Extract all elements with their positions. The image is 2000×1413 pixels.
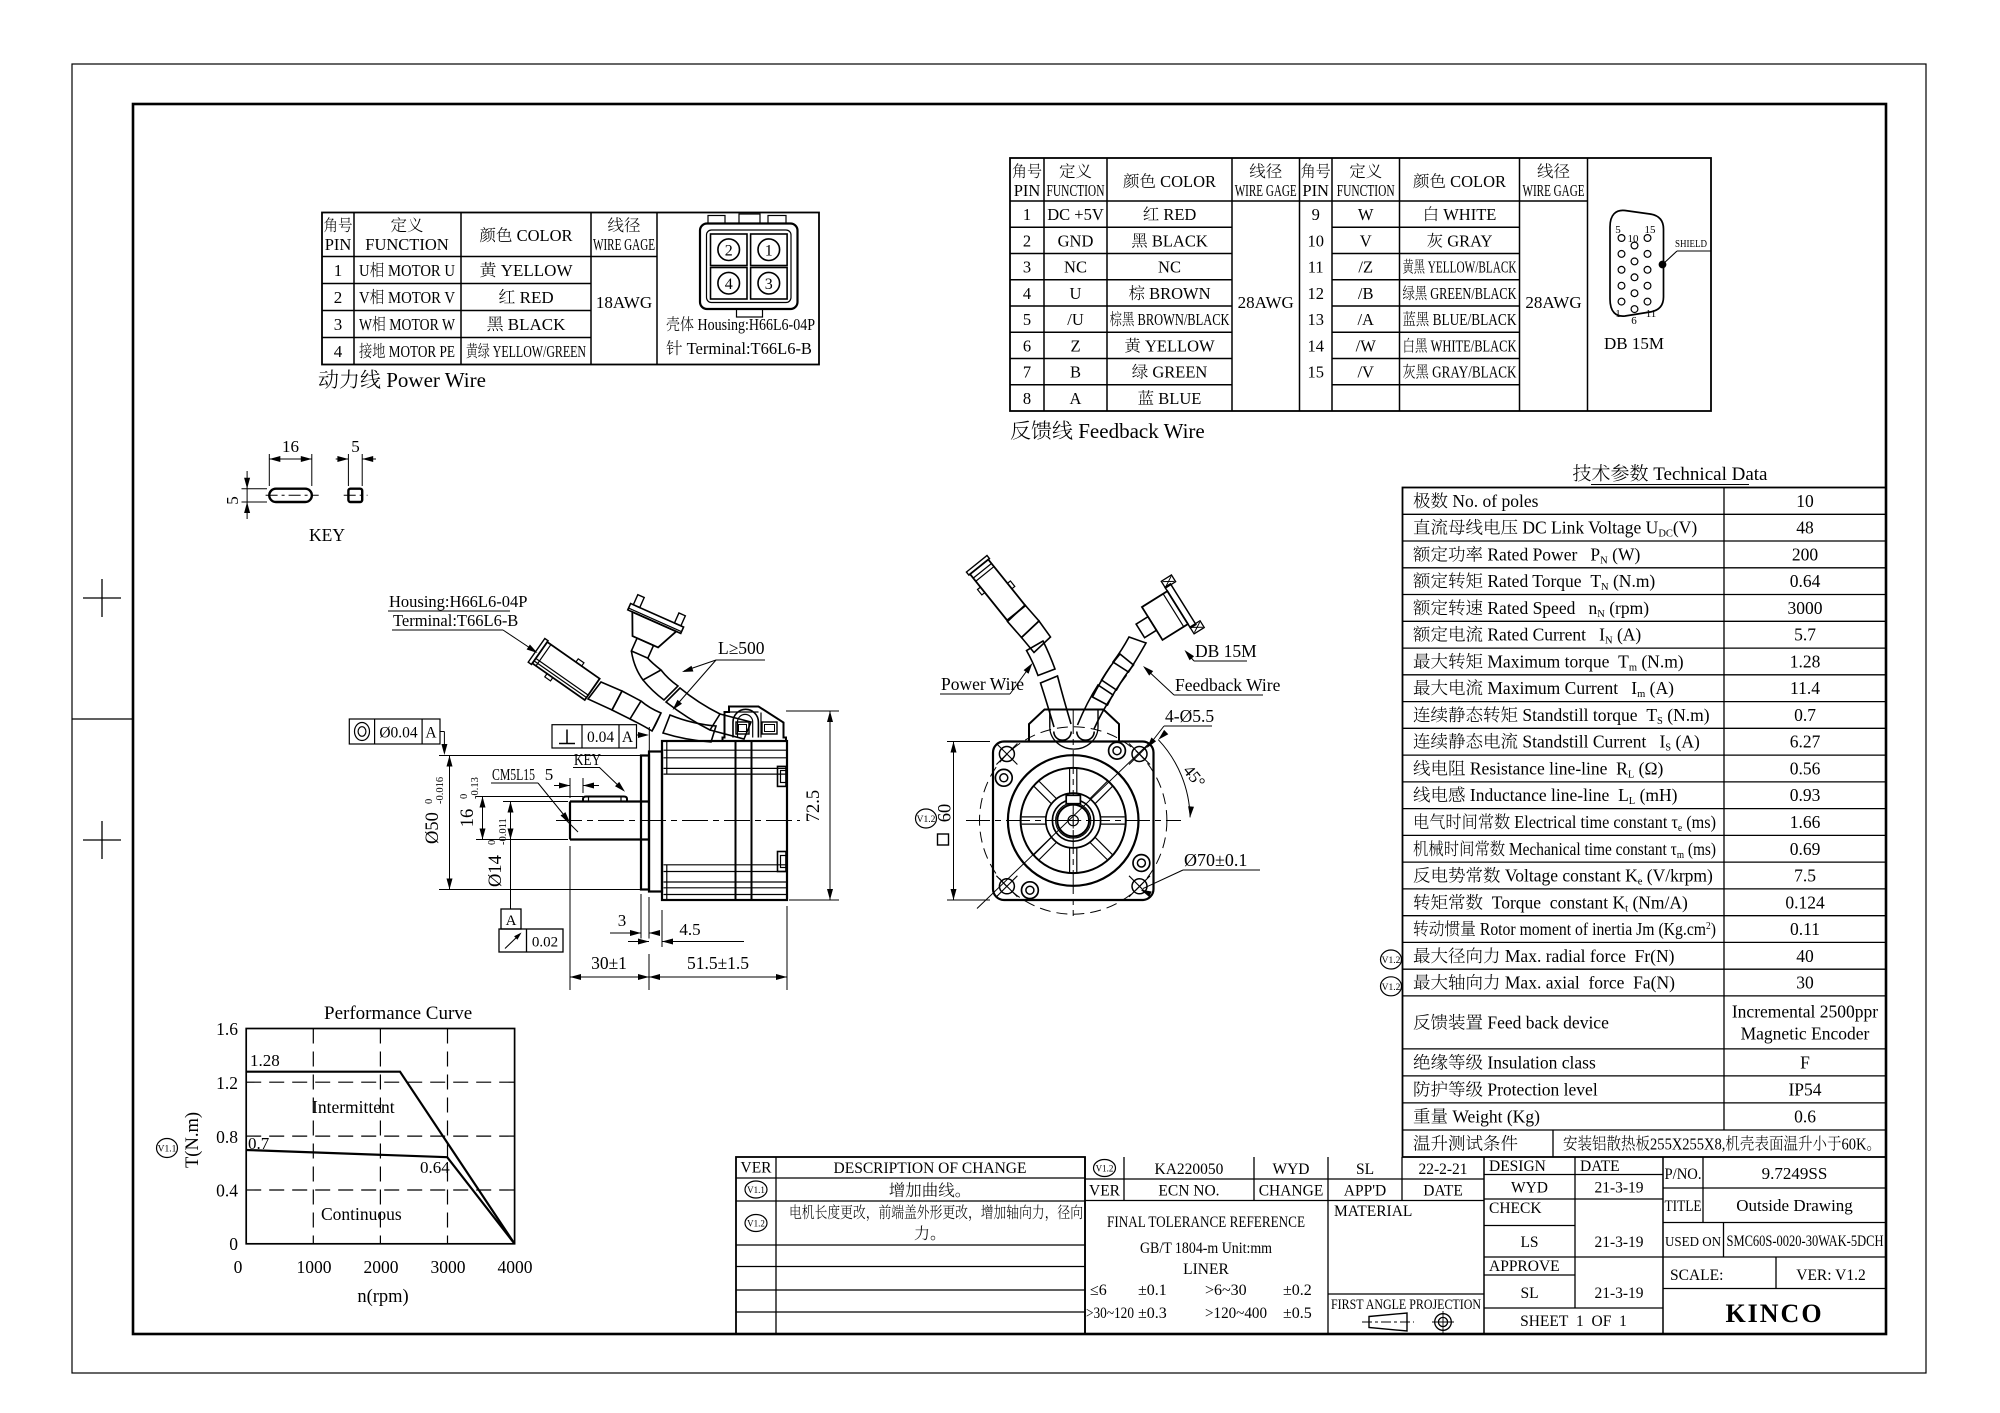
svg-text:40: 40 (1796, 946, 1814, 966)
svg-text:红 RED: 红 RED (498, 288, 553, 307)
feedback cable lead side view (631, 651, 751, 739)
technical data rows (1413, 491, 1881, 1154)
svg-text:4000: 4000 (498, 1257, 533, 1277)
svg-text:0.02: 0.02 (532, 935, 558, 951)
svg-text:W: W (1358, 205, 1374, 224)
svg-text:15: 15 (1645, 224, 1657, 236)
pilot boss (641, 756, 649, 890)
svg-text:LS: LS (1520, 1234, 1538, 1251)
svg-text:11: 11 (1308, 258, 1324, 277)
dimension 51.5 body length (649, 906, 787, 990)
svg-text:L≥500: L≥500 (718, 638, 765, 658)
svg-text:Terminal:T66L6-B: Terminal:T66L6-B (393, 611, 518, 630)
svg-text:5: 5 (351, 437, 360, 456)
svg-text:12: 12 (1307, 284, 1324, 303)
svg-text:反馈装置 Feed back device: 反馈装置 Feed back device (1413, 1012, 1609, 1032)
svg-text:6.27: 6.27 (1790, 732, 1821, 752)
power cable connector side view (527, 636, 602, 703)
svg-text:0.8: 0.8 (216, 1127, 238, 1147)
svg-text:动力线 Power Wire: 动力线 Power Wire (318, 368, 486, 392)
shield pigtail and label (1659, 238, 1711, 268)
dimension 3 boss standoff (610, 894, 660, 939)
svg-text:1.66: 1.66 (1790, 812, 1821, 832)
svg-text:最大径向力 Max. radial force Fr(N): 最大径向力 Max. radial force Fr(N) (1413, 946, 1675, 966)
mounting holes 4xdia5.5 (996, 744, 1150, 897)
svg-text:Continuous: Continuous (321, 1204, 402, 1224)
svg-text:力。: 力。 (914, 1225, 946, 1243)
svg-text:转矩常数 Torque constant Kt (Nm/: 转矩常数 Torque constant Kt (Nm/A) (1413, 892, 1688, 914)
intermittent torque curve (246, 1072, 514, 1244)
chart gridlines (246, 1029, 514, 1244)
svg-text:SCALE:: SCALE: (1670, 1267, 1723, 1284)
svg-text:±0.5: ±0.5 (1283, 1305, 1312, 1322)
svg-text:IP54: IP54 (1788, 1079, 1821, 1099)
svg-text:0: 0 (424, 799, 435, 804)
45 degree reference line (977, 742, 1151, 909)
svg-text:15: 15 (1307, 363, 1324, 382)
svg-text:连续静态转矩 Standstill torque TS (: 连续静态转矩 Standstill torque TS (N.m) (1413, 705, 1710, 727)
svg-text:V1.2: V1.2 (1096, 1164, 1114, 1174)
power cable front view (1027, 641, 1072, 727)
feedback wire caption (1010, 419, 1205, 443)
svg-text:黄绿 YELLOW/GREEN: 黄绿 YELLOW/GREEN (466, 342, 586, 361)
DB15 male connector face symbol (1604, 210, 1664, 353)
curve value labels (248, 1051, 450, 1224)
svg-text:Ø14: Ø14 (486, 855, 506, 887)
svg-text:U: U (1070, 284, 1082, 303)
4-pin power connector symbol (700, 214, 798, 317)
svg-text:4: 4 (334, 342, 343, 361)
svg-text:KA220050: KA220050 (1155, 1161, 1224, 1178)
drawing sheet inner border (133, 104, 1886, 1334)
front flange square (993, 742, 1154, 901)
svg-text:13: 13 (1307, 310, 1324, 329)
svg-text:10: 10 (1796, 491, 1814, 511)
svg-text:28AWG: 28AWG (1238, 293, 1294, 312)
svg-text:≤6: ≤6 (1090, 1282, 1107, 1299)
svg-text:NC: NC (1158, 258, 1181, 277)
V1.2 bubble radial force (1381, 950, 1402, 969)
svg-text:CHECK: CHECK (1489, 1200, 1542, 1217)
svg-text:V1.2: V1.2 (1382, 983, 1401, 993)
svg-text:1000: 1000 (297, 1257, 332, 1277)
feedback plug front view (1124, 575, 1204, 657)
front bearing housing circles (1008, 755, 1139, 886)
svg-text:0.64: 0.64 (1790, 571, 1821, 591)
svg-text:3: 3 (765, 276, 773, 293)
svg-text:A: A (425, 725, 437, 742)
power plug front view (965, 554, 1029, 623)
svg-text:1.6: 1.6 (216, 1019, 238, 1039)
shaft centre line (556, 820, 800, 822)
svg-text:>120~400: >120~400 (1205, 1305, 1267, 1322)
svg-text:DESIGN: DESIGN (1489, 1158, 1546, 1175)
svg-text:0: 0 (459, 794, 470, 799)
technical data table title (1573, 464, 1769, 485)
svg-text:黑 BLACK: 黑 BLACK (1131, 231, 1208, 250)
svg-text:白 WHITE: 白 WHITE (1423, 205, 1497, 224)
svg-text:WIRE GAGE: WIRE GAGE (1523, 181, 1585, 200)
svg-text:0.6: 0.6 (1794, 1106, 1816, 1126)
svg-text:18AWG: 18AWG (596, 293, 652, 312)
dimension 5 key position (545, 765, 599, 798)
svg-text:WIRE GAGE: WIRE GAGE (1235, 181, 1297, 200)
svg-text:7.5: 7.5 (1794, 866, 1816, 886)
svg-text:GB/T 1804-m Unit:mm: GB/T 1804-m Unit:mm (1140, 1240, 1272, 1257)
svg-text:A: A (1070, 389, 1082, 408)
svg-text:线径: 线径 (1249, 162, 1283, 181)
svg-text:转动惯量 Rotor moment of inertia J: 转动惯量 Rotor moment of inertia Jm (Kg.cm2) (1413, 919, 1716, 939)
svg-text:温升测试条件: 温升测试条件 (1413, 1134, 1518, 1154)
svg-text:0: 0 (229, 1234, 238, 1254)
svg-text:机械时间常数 Mechanical time constan: 机械时间常数 Mechanical time constant τm (ms) (1413, 839, 1716, 861)
motor body side profile (662, 741, 787, 900)
svg-text:0.93: 0.93 (1790, 785, 1821, 805)
svg-text:A: A (506, 913, 517, 929)
svg-text:PIN: PIN (325, 235, 352, 254)
material box (1334, 1157, 1484, 1334)
terminal housing on motor top (723, 707, 787, 742)
svg-text:角号: 角号 (324, 216, 353, 235)
svg-text:WIRE GAGE: WIRE GAGE (593, 235, 655, 254)
svg-text:5.7: 5.7 (1794, 625, 1816, 645)
svg-text:Ø0.04: Ø0.04 (379, 725, 418, 742)
svg-text:P/NO.: P/NO. (1665, 1166, 1702, 1183)
label dia70 (1141, 850, 1261, 897)
svg-text:DESCRIPTION OF CHANGE: DESCRIPTION OF CHANGE (834, 1160, 1027, 1177)
svg-text:Ø50: Ø50 (423, 812, 443, 844)
svg-text:接地 MOTOR PE: 接地 MOTOR PE (359, 342, 455, 361)
mounting flange side profile (649, 752, 662, 892)
svg-text:棕 BROWN: 棕 BROWN (1128, 284, 1210, 303)
svg-text:22-2-21: 22-2-21 (1418, 1161, 1467, 1178)
svg-text:0.64: 0.64 (420, 1158, 450, 1177)
svg-text:3: 3 (334, 315, 343, 334)
svg-text:-0.016: -0.016 (435, 777, 446, 804)
svg-text:线电感 Inductance line-line LL (: 线电感 Inductance line-line LL (mH) (1413, 785, 1678, 807)
svg-text:V1.2: V1.2 (1382, 956, 1401, 966)
svg-text:技术参数 Technical Data: 技术参数 Technical Data (1573, 464, 1769, 485)
dimension 5 key slot width (223, 471, 267, 519)
performance chart axes box (246, 1029, 514, 1244)
registration cross lower (83, 821, 121, 859)
motor side view shaft (570, 802, 649, 840)
svg-text:Outside Drawing: Outside Drawing (1736, 1196, 1853, 1215)
svg-text:ECN NO.: ECN NO. (1158, 1183, 1219, 1200)
feedback cable front view (1078, 654, 1134, 729)
svg-text:>30~120: >30~120 (1086, 1305, 1134, 1322)
svg-text:黄 YELLOW: 黄 YELLOW (479, 261, 573, 280)
svg-text:6: 6 (1631, 315, 1637, 327)
svg-text:51.5±1.5: 51.5±1.5 (687, 953, 749, 973)
svg-text:3: 3 (1023, 258, 1031, 277)
svg-text:28AWG: 28AWG (1525, 293, 1581, 312)
svg-text:10: 10 (1307, 231, 1324, 250)
svg-text:3: 3 (618, 911, 627, 930)
svg-text:VER: VER (1089, 1183, 1121, 1200)
svg-text:9.7249SS: 9.7249SS (1762, 1164, 1828, 1183)
svg-text:GND: GND (1058, 231, 1094, 250)
svg-text:KEY: KEY (574, 750, 601, 769)
svg-text:21-3-19: 21-3-19 (1594, 1180, 1643, 1197)
V1.1 revision bubble chart (157, 1139, 178, 1158)
svg-text:FIRST ANGLE PROJECTION: FIRST ANGLE PROJECTION (1331, 1297, 1481, 1313)
svg-text:Incremental 2500ppr: Incremental 2500ppr (1732, 1001, 1878, 1021)
svg-text:30: 30 (1796, 973, 1814, 993)
svg-text:A: A (622, 729, 634, 746)
svg-text:LINER: LINER (1183, 1261, 1229, 1278)
svg-text:/V: /V (1357, 363, 1374, 382)
front view centre lines (966, 710, 1181, 916)
svg-text:0: 0 (234, 1257, 243, 1277)
chart axis titles (183, 1112, 409, 1307)
label housing terminal for power connector (388, 592, 538, 653)
svg-text:F: F (1800, 1052, 1810, 1072)
continuous torque curve (246, 1150, 514, 1244)
svg-text:60: 60 (936, 804, 956, 823)
power wire pin table (322, 213, 819, 365)
svg-text:线电阻 Resistance line-line RL (: 线电阻 Resistance line-line RL (Ω) (1413, 759, 1663, 781)
svg-text:颜色 COLOR: 颜色 COLOR (479, 226, 572, 245)
svg-text:额定转矩 Rated Torque TN (N.m): 额定转矩 Rated Torque TN (N.m) (1413, 571, 1655, 593)
label L>=500 cable length (673, 638, 766, 710)
svg-text:CHANGE: CHANGE (1259, 1183, 1324, 1200)
svg-text:-0.13: -0.13 (470, 777, 481, 799)
svg-text:Performance Curve: Performance Curve (324, 1003, 472, 1024)
svg-text:VER: V1.2: VER: V1.2 (1796, 1267, 1865, 1284)
svg-text:APPROVE: APPROVE (1489, 1258, 1560, 1275)
left margin centre divider (72, 718, 133, 720)
svg-text:壳体 Housing:H66L6-04P: 壳体 Housing:H66L6-04P (666, 315, 815, 334)
rear cover clips (778, 766, 787, 871)
svg-text:蓝黑 BLUE/BLACK: 蓝黑 BLUE/BLACK (1403, 310, 1517, 329)
svg-text:W相 MOTOR W: W相 MOTOR W (359, 315, 456, 334)
chart y axis labels (216, 1019, 238, 1254)
svg-text:Z: Z (1070, 336, 1080, 355)
svg-text:极数 No. of poles: 极数 No. of poles (1413, 491, 1539, 511)
svg-text:DC +5V: DC +5V (1047, 205, 1104, 224)
svg-text:电气时间常数 Electrical time constan: 电气时间常数 Electrical time constant τe (ms) (1413, 812, 1716, 834)
svg-text:定义: 定义 (1059, 162, 1092, 181)
svg-text:/W: /W (1356, 336, 1377, 355)
svg-text:5: 5 (545, 765, 554, 784)
dimension dia14 shaft (486, 802, 568, 887)
svg-text:WYD: WYD (1511, 1180, 1548, 1197)
svg-text:V相 MOTOR V: V相 MOTOR V (359, 288, 456, 307)
svg-text:2: 2 (725, 243, 733, 260)
svg-text:±0.1: ±0.1 (1138, 1282, 1167, 1299)
svg-text:2000: 2000 (364, 1257, 399, 1277)
svg-text:T(N.m): T(N.m) (183, 1112, 203, 1168)
svg-text:5: 5 (1023, 310, 1031, 329)
dimension square 60 (936, 742, 991, 901)
svg-text:2: 2 (1023, 231, 1031, 250)
svg-text:黄 YELLOW: 黄 YELLOW (1124, 336, 1215, 355)
svg-text:PIN: PIN (1014, 181, 1041, 200)
svg-text:SHEET 1 OF 1: SHEET 1 OF 1 (1520, 1313, 1627, 1330)
svg-text:3000: 3000 (1788, 598, 1823, 618)
svg-text:绿黑 GREEN/BLACK: 绿黑 GREEN/BLACK (1403, 284, 1517, 303)
svg-text:B: B (1070, 363, 1081, 382)
svg-text:9: 9 (1312, 205, 1320, 224)
svg-text:SL: SL (1356, 1161, 1374, 1178)
svg-text:黑 BLACK: 黑 BLACK (487, 315, 567, 334)
svg-text:红 RED: 红 RED (1143, 205, 1197, 224)
svg-text:APP'D: APP'D (1344, 1183, 1386, 1200)
registration cross upper (83, 579, 121, 617)
shaft key side profile (583, 797, 627, 802)
label feedback wire (1143, 666, 1281, 695)
dimension dia50 pilot (423, 756, 647, 890)
runout 0.02 frame (499, 929, 563, 952)
dimension 5 key square (336, 437, 376, 486)
svg-text:Feedback Wire: Feedback Wire (1175, 675, 1281, 695)
svg-text:绝缘等级 Insulation class: 绝缘等级 Insulation class (1413, 1052, 1596, 1072)
svg-text:线径: 线径 (608, 216, 642, 235)
svg-text:线径: 线径 (1537, 162, 1571, 181)
dimension 72.5 overall height (786, 711, 839, 900)
dimension 4.5 flange thickness (628, 910, 744, 947)
svg-text:4: 4 (1023, 284, 1031, 303)
bolt circle dashed dia70 (979, 727, 1166, 914)
svg-text:/A: /A (1357, 310, 1374, 329)
svg-text:0.124: 0.124 (1785, 892, 1825, 912)
svg-text:16: 16 (282, 437, 299, 456)
power connector housing/terminal note (666, 315, 815, 358)
svg-text:0.4: 0.4 (216, 1181, 238, 1201)
svg-text:定义: 定义 (391, 216, 424, 235)
svg-text:1: 1 (765, 243, 773, 260)
svg-text:V1.2: V1.2 (747, 1219, 765, 1229)
svg-text:6: 6 (1023, 336, 1031, 355)
svg-text:5: 5 (223, 496, 242, 505)
svg-text:最大转矩 Maximum torque Tm (N.m): 最大转矩 Maximum torque Tm (N.m) (1413, 651, 1684, 673)
svg-text:角号: 角号 (1301, 162, 1331, 181)
svg-text:Magnetic Encoder: Magnetic Encoder (1741, 1023, 1870, 1043)
svg-text:11: 11 (1646, 308, 1657, 320)
label power wire (940, 663, 1033, 694)
svg-text:V: V (1360, 231, 1372, 250)
svg-text:Ø70±0.1: Ø70±0.1 (1184, 850, 1247, 870)
revision history table (736, 1157, 1085, 1334)
svg-text:V1.1: V1.1 (747, 1185, 765, 1195)
svg-text:角号: 角号 (1012, 162, 1042, 181)
svg-text:棕黑 BROWN/BLACK: 棕黑 BROWN/BLACK (1110, 310, 1230, 329)
svg-text:VER: VER (741, 1160, 773, 1177)
svg-text:MATERIAL: MATERIAL (1334, 1203, 1412, 1220)
svg-text:Housing:H66L6-04P: Housing:H66L6-04P (389, 592, 527, 611)
svg-text:48: 48 (1796, 518, 1814, 538)
design check approve grid (1484, 1157, 1663, 1334)
svg-text:SMC60S-0020-30WAK-5DCH: SMC60S-0020-30WAK-5DCH (1727, 1233, 1884, 1250)
svg-text:14: 14 (1307, 336, 1324, 355)
svg-text:30±1: 30±1 (591, 953, 627, 973)
feedback cable connector side view (613, 593, 688, 666)
svg-text:1.28: 1.28 (250, 1051, 280, 1070)
feedback plug boot cable front view (1093, 637, 1147, 705)
shaft circle with keyway (1057, 795, 1089, 836)
svg-text:0.7: 0.7 (248, 1134, 270, 1153)
svg-text:1.28: 1.28 (1790, 651, 1821, 671)
svg-text:/Z: /Z (1358, 258, 1373, 277)
svg-text:0: 0 (487, 840, 498, 845)
svg-text:直流母线电压 DC Link Voltage UDC(V): 直流母线电压 DC Link Voltage UDC(V) (1413, 518, 1697, 540)
dimension 30 shaft length (570, 846, 649, 990)
svg-text:0.69: 0.69 (1790, 839, 1821, 859)
svg-text:连续静态电流 Standstill Current IS: 连续静态电流 Standstill Current IS (A) (1413, 732, 1700, 754)
svg-text:/B: /B (1358, 284, 1374, 303)
svg-text:CM5L15: CM5L15 (492, 765, 535, 784)
svg-text:1: 1 (1023, 205, 1031, 224)
V1.2 bubble axial force (1381, 977, 1402, 996)
svg-text:-0.011: -0.011 (498, 818, 509, 845)
svg-text:4.5: 4.5 (679, 920, 700, 939)
svg-text:7: 7 (1023, 363, 1031, 382)
svg-text:200: 200 (1792, 544, 1819, 564)
svg-text:4-Ø5.5: 4-Ø5.5 (1165, 706, 1214, 726)
dimension 45 degrees arc (1158, 730, 1209, 818)
svg-text:针 Terminal:T66L6-B: 针 Terminal:T66L6-B (666, 339, 812, 358)
svg-text:21-3-19: 21-3-19 (1594, 1234, 1643, 1251)
part number title block (1663, 1157, 1886, 1328)
svg-text:电机长度更改，前端盖外形更改，增加轴向力，径向: 电机长度更改，前端盖外形更改，增加轴向力，径向 (789, 1204, 1083, 1222)
svg-text:0.7: 0.7 (1794, 705, 1816, 725)
svg-text:绿 GREEN: 绿 GREEN (1132, 363, 1208, 382)
svg-text:DB 15M: DB 15M (1195, 641, 1257, 661)
svg-text:最大轴向力 Max. axial force Fa(N): 最大轴向力 Max. axial force Fa(N) (1413, 973, 1675, 993)
svg-text:SHIELD: SHIELD (1675, 238, 1707, 250)
svg-text:增加曲线。: 增加曲线。 (889, 1181, 972, 1200)
dimension 16 key depth (458, 777, 583, 839)
front terminal housing (1029, 710, 1119, 750)
svg-text:0.04: 0.04 (587, 729, 614, 746)
key square section (5x5) (344, 489, 368, 502)
svg-text:额定转速 Rated Speed nN (rpm): 额定转速 Rated Speed nN (rpm) (1413, 598, 1649, 620)
svg-text:灰黑 GRAY/BLACK: 灰黑 GRAY/BLACK (1403, 363, 1517, 382)
svg-text:5: 5 (1615, 224, 1621, 236)
svg-text:反馈线 Feedback Wire: 反馈线 Feedback Wire (1010, 419, 1205, 443)
svg-text:重量 Weight (Kg): 重量 Weight (Kg) (1413, 1106, 1540, 1126)
svg-text:NC: NC (1064, 258, 1087, 277)
chart x axis labels (234, 1257, 533, 1277)
svg-text:2: 2 (334, 288, 343, 307)
svg-text:KINCO: KINCO (1725, 1299, 1823, 1328)
svg-text:FUNCTION: FUNCTION (1337, 181, 1395, 200)
final tolerance reference box (1086, 1201, 1328, 1335)
svg-text:Intermittent: Intermittent (312, 1097, 395, 1117)
CM5L15 centre hole label (491, 765, 578, 832)
technical data table grid (1403, 488, 1887, 1158)
svg-text:1: 1 (334, 261, 343, 280)
svg-text:>6~30: >6~30 (1205, 1282, 1247, 1299)
V1.2 revision bubble front view (916, 809, 937, 828)
first angle projection box (1328, 1294, 1484, 1333)
key slot section (16x5) (266, 489, 319, 502)
svg-text:n(rpm): n(rpm) (357, 1287, 408, 1307)
svg-text:0.56: 0.56 (1790, 759, 1821, 779)
svg-text:±0.2: ±0.2 (1283, 1282, 1312, 1299)
svg-text:颜色 COLOR: 颜色 COLOR (1413, 172, 1506, 191)
label 4-dia5.5 (1147, 706, 1214, 748)
svg-text:/U: /U (1067, 310, 1084, 329)
svg-text:U相 MOTOR U: U相 MOTOR U (359, 261, 455, 280)
cable glands front view (1054, 732, 1094, 741)
KEY leader label side view (573, 750, 625, 792)
svg-text:蓝 BLUE: 蓝 BLUE (1138, 389, 1202, 408)
power wire caption (318, 368, 486, 392)
svg-text:KEY: KEY (309, 525, 345, 545)
svg-text:10: 10 (1628, 233, 1640, 245)
